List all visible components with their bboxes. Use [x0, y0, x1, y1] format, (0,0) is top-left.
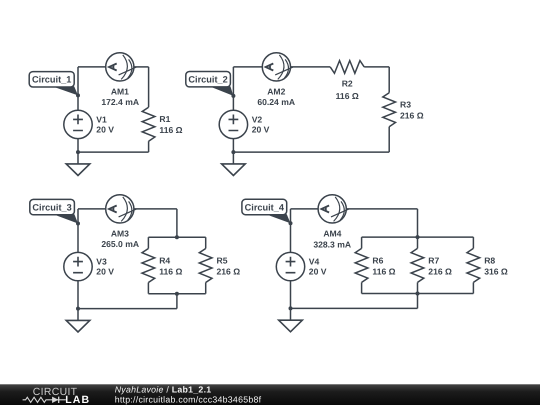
ground	[279, 308, 303, 331]
svg-text:V2: V2	[252, 114, 263, 124]
net label Circuit_1 callout	[29, 72, 78, 96]
wire R7 top stub	[417, 237, 419, 248]
svg-text:Circuit_1: Circuit_1	[32, 75, 71, 85]
svg-text:R3: R3	[400, 100, 411, 110]
wire C4 top rail	[362, 236, 474, 238]
wire R5 bottom stub	[205, 283, 207, 294]
svg-text:116 Ω: 116 Ω	[159, 125, 182, 135]
voltage source V4	[276, 252, 304, 280]
wire R1 to bottom	[148, 141, 150, 152]
node C4 label attach	[289, 221, 293, 225]
svg-text:172.4 mA: 172.4 mA	[101, 97, 139, 107]
svg-text:116 Ω: 116 Ω	[159, 266, 182, 276]
svg-text:R2: R2	[342, 79, 353, 89]
wire feed down to top rail	[417, 209, 419, 237]
svg-text:NyahLavoie / Lab1_2.1: NyahLavoie / Lab1_2.1	[115, 384, 212, 394]
svg-text:316 Ω: 316 Ω	[484, 266, 508, 276]
node C3 bottom rail junction	[175, 292, 179, 296]
ground	[66, 152, 90, 175]
svg-text:R7: R7	[428, 255, 439, 265]
wire C1 top-left to AM1	[78, 66, 106, 68]
svg-text:V4: V4	[309, 257, 320, 267]
svg-text:AM2: AM2	[267, 86, 285, 96]
svg-text:R8: R8	[484, 255, 495, 265]
wire C4 bottom	[291, 307, 418, 309]
node C1 ground node	[76, 150, 80, 154]
wire rail to bottom wire	[417, 294, 419, 309]
svg-text:R1: R1	[159, 114, 170, 124]
ammeter AM3	[106, 195, 137, 223]
wire R6 bottom stub	[361, 282, 363, 293]
svg-text:116 Ω: 116 Ω	[372, 266, 395, 276]
node C4 top rail junction	[416, 235, 420, 239]
wire C2 left	[232, 67, 234, 152]
node C4 ground node	[289, 306, 293, 310]
wire AM2 to R2	[290, 66, 330, 68]
wire R4 bottom stub	[147, 283, 149, 294]
ammeter AM4	[318, 195, 349, 223]
svg-text:20 V: 20 V	[252, 124, 270, 134]
wire C4 bottom rail	[362, 293, 474, 295]
svg-text:328.3 mA: 328.3 mA	[313, 239, 351, 249]
node C3 ground node	[76, 307, 80, 311]
voltage source V2	[219, 110, 247, 138]
svg-text:AM1: AM1	[111, 86, 129, 96]
wire R5 top stub	[205, 237, 207, 248]
resistor R4	[142, 249, 155, 283]
wire R6 top stub	[361, 237, 363, 248]
node C4 bottom rail junction	[416, 292, 420, 296]
wire left up to V1	[77, 110, 79, 152]
svg-text:Circuit_4: Circuit_4	[245, 202, 285, 212]
svg-text:216 Ω: 216 Ω	[428, 266, 452, 276]
node C2 ground node	[231, 150, 235, 154]
wire R8 top stub	[472, 237, 474, 248]
wire C4 left	[290, 209, 292, 309]
wire C4 top-left to AM4	[291, 208, 319, 210]
wire R7 bottom stub	[417, 282, 419, 293]
wire R4 top stub	[147, 237, 149, 248]
svg-text:116 Ω: 116 Ω	[336, 91, 359, 101]
svg-text:http://circuitlab.com/ccc34b34: http://circuitlab.com/ccc34b3465b8f	[115, 394, 262, 404]
wire V1 top to corner	[77, 67, 79, 110]
ground	[66, 309, 90, 332]
svg-text:AM4: AM4	[323, 229, 341, 239]
net label Circuit_4 callout	[242, 199, 291, 223]
svg-text:AM3: AM3	[111, 228, 129, 238]
svg-text:60.24 mA: 60.24 mA	[257, 97, 295, 107]
node C1 label attach	[76, 93, 80, 97]
wire R8 bottom stub	[472, 282, 474, 293]
wire C1 bottom	[78, 151, 149, 153]
svg-text:265.0 mA: 265.0 mA	[101, 239, 139, 249]
svg-text:Circuit_2: Circuit_2	[188, 75, 227, 85]
wire AM1 to R1 corner	[134, 66, 149, 68]
wire AM3 to feed corner	[134, 208, 177, 210]
wire C3 bottom	[78, 308, 177, 310]
resistor R7	[411, 248, 424, 282]
svg-text:R4: R4	[159, 255, 170, 265]
voltage source V3	[64, 252, 92, 280]
voltage source V1	[64, 110, 92, 138]
svg-text:V3: V3	[96, 257, 107, 267]
wire R3 to bottom	[388, 127, 390, 152]
node C2 label attach	[231, 94, 235, 98]
svg-text:20 V: 20 V	[96, 267, 114, 277]
resistor R1	[142, 107, 155, 141]
ammeter AM1	[106, 53, 137, 81]
node C3 label attach	[76, 222, 80, 226]
wire C2 top-left to AM2	[233, 66, 262, 68]
svg-text:20 V: 20 V	[309, 267, 327, 277]
wire feed down to top rail	[176, 209, 178, 237]
net label Circuit_2 callout	[186, 72, 234, 96]
wire C3 bottom rail	[148, 293, 205, 295]
resistor R8	[467, 248, 480, 282]
svg-text:R6: R6	[372, 255, 383, 265]
wire AM4 to feed corner	[346, 208, 417, 210]
resistor R2	[330, 61, 364, 74]
svg-text:216 Ω: 216 Ω	[400, 111, 424, 121]
wire rail to bottom wire	[176, 294, 178, 309]
wire down to R1	[148, 67, 150, 107]
node C3 top rail junction	[175, 235, 179, 239]
CircuitLab logo resistor-diode glyph	[23, 397, 66, 403]
svg-text:V1: V1	[96, 114, 107, 124]
resistor R6	[355, 248, 368, 282]
wire C3 top-left to AM3	[78, 208, 106, 210]
wire C2 bottom	[233, 151, 389, 153]
svg-text:216 Ω: 216 Ω	[217, 266, 241, 276]
resistor R5	[199, 249, 212, 283]
ammeter AM2	[262, 53, 293, 81]
svg-text:LAB: LAB	[65, 394, 90, 405]
svg-text:20 V: 20 V	[96, 124, 114, 134]
resistor R3	[383, 93, 396, 127]
wire down to R3	[388, 67, 390, 93]
svg-text:Circuit_3: Circuit_3	[32, 203, 71, 213]
wire C3 left	[77, 209, 79, 309]
net label Circuit_3 callout	[30, 199, 78, 223]
ground	[222, 152, 246, 175]
wire C3 top rail	[148, 236, 205, 238]
svg-text:R5: R5	[217, 255, 228, 265]
wire R2 to corner	[364, 66, 389, 68]
